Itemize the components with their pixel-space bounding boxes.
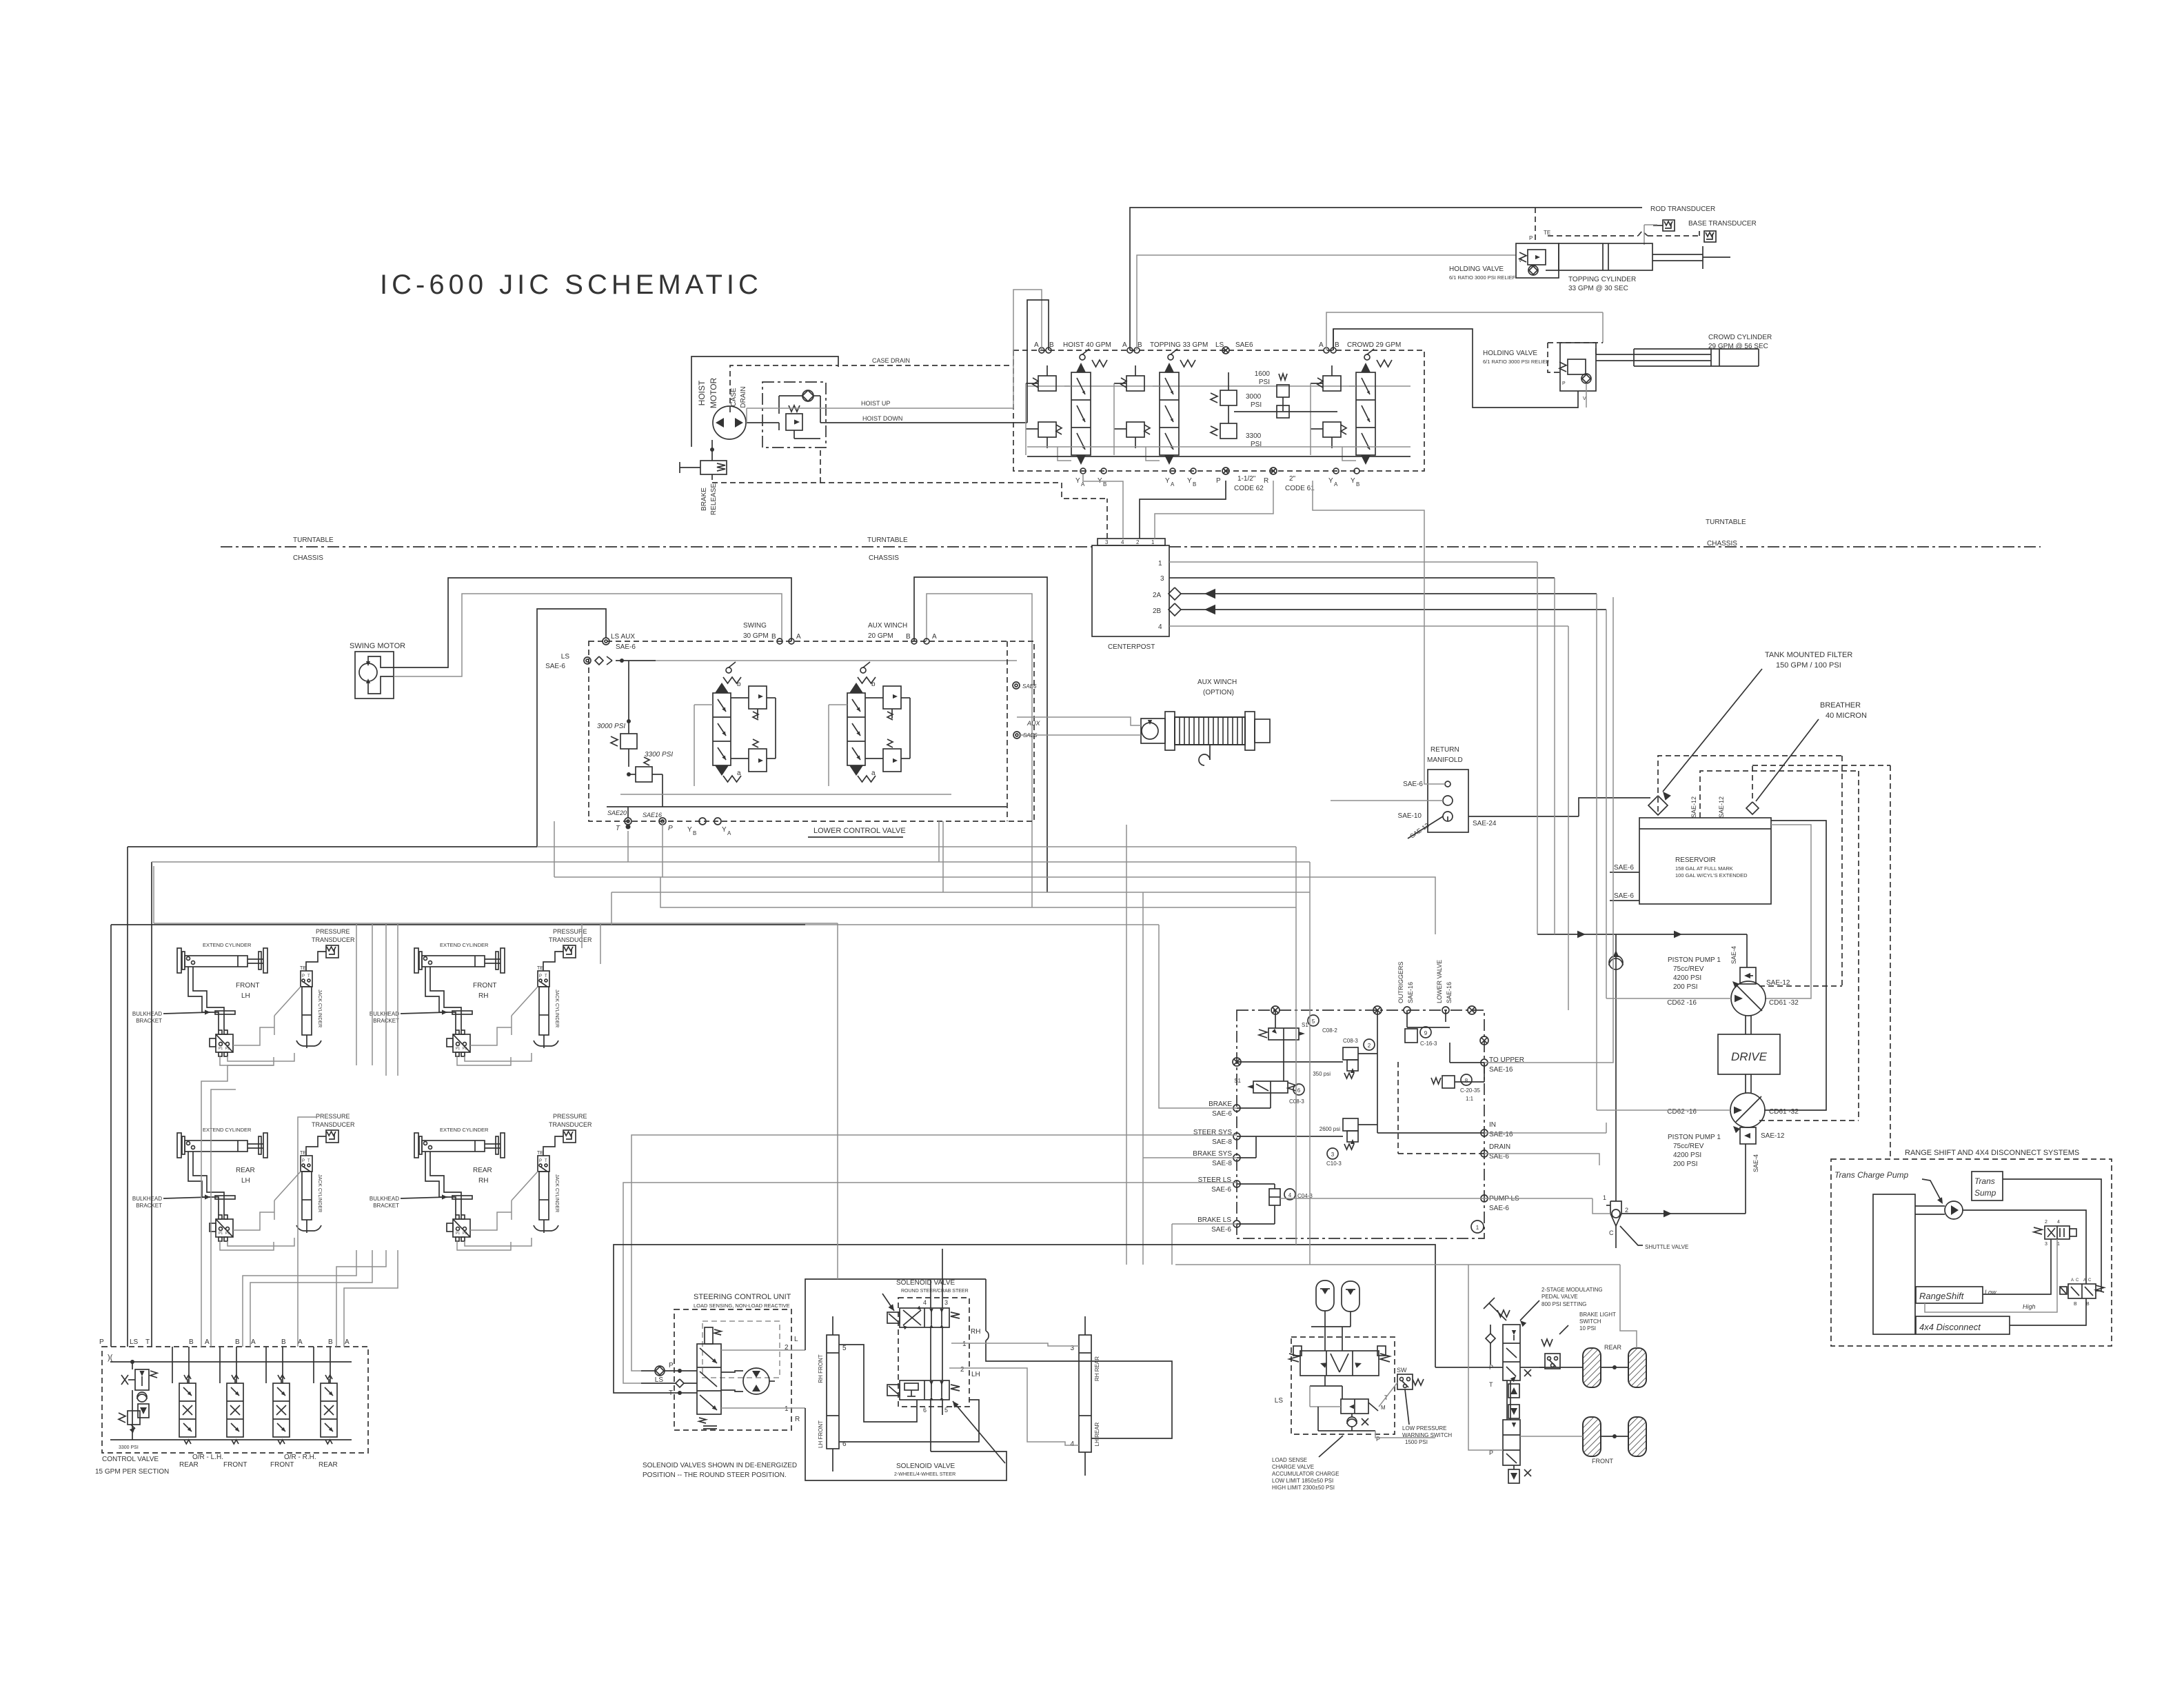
svg-text:P: P — [1376, 1436, 1380, 1443]
svg-text:LS: LS — [1275, 1397, 1284, 1405]
svg-text:CASE DRAIN: CASE DRAIN — [872, 357, 910, 364]
front RH jack cylinder — [539, 987, 549, 1035]
wire crowd to holding valve 2 — [1602, 312, 1604, 343]
crowd section feed lines — [1349, 385, 1356, 387]
svg-text:5: 5 — [944, 1407, 948, 1414]
front LH jack diagonal wire — [274, 987, 301, 1016]
svg-text:SOLENOID VALVES SHOWN IN DE-EN: SOLENOID VALVES SHOWN IN DE-ENERGIZED — [643, 1462, 797, 1469]
pump2 SAE-4 rect — [1740, 1127, 1756, 1144]
rear LH jack diagonal wire — [274, 1172, 301, 1200]
svg-text:b: b — [737, 681, 741, 688]
svg-text:JACK CYLINDER: JACK CYLINDER — [554, 989, 559, 1027]
svg-text:4: 4 — [923, 1299, 927, 1306]
aux winch spool — [847, 693, 865, 765]
svg-text:15 GPM PER SECTION: 15 GPM PER SECTION — [95, 1468, 169, 1476]
svg-text:LH: LH — [241, 1177, 250, 1185]
dashed TE line to transducers — [1548, 235, 1638, 237]
hoist pilot valve upper — [1038, 376, 1056, 391]
svg-text:3300: 3300 — [1246, 432, 1262, 440]
lower valve T port — [625, 818, 631, 825]
svg-text:TRANSDUCER: TRANSDUCER — [549, 1121, 592, 1128]
brake harness top lines — [1213, 1245, 1435, 1367]
svg-text:HOIST 40 GPM: HOIST 40 GPM — [1063, 341, 1111, 349]
svg-text:SAE-6: SAE-6 — [1489, 1205, 1509, 1212]
svg-text:PSI: PSI — [1259, 379, 1270, 386]
svg-text:SW: SW — [1397, 1367, 1407, 1374]
swing relief lower — [749, 749, 767, 772]
topping pilot port circle — [1168, 354, 1173, 360]
svg-text:SAE6: SAE6 — [1235, 341, 1253, 349]
harness line 1294 — [611, 892, 1310, 893]
lower valve P drop — [662, 844, 663, 845]
svg-text:R: R — [1264, 477, 1268, 485]
front LH manifold out wires — [233, 1027, 274, 1045]
rear RH extend cylinder bracket right — [501, 1133, 505, 1158]
svg-text:O/R - R.H.: O/R - R.H. — [284, 1454, 316, 1461]
rear RH extend cylinder bracket left — [414, 1133, 418, 1158]
pedal valve lower — [1503, 1420, 1520, 1465]
svg-text:C-16-3: C-16-3 — [1420, 1041, 1437, 1047]
svg-text:AUX WINCH: AUX WINCH — [1197, 679, 1237, 686]
svg-text:CASE: CASE — [730, 388, 738, 407]
charge valve box — [1291, 1337, 1395, 1434]
topping pilot valve upper — [1126, 376, 1144, 391]
trans charge pump — [1945, 1201, 1963, 1219]
T port drop — [627, 831, 629, 862]
svg-text:200 PSI: 200 PSI — [1673, 983, 1698, 991]
svg-text:P1: P1 — [219, 1047, 223, 1051]
svg-text:EXTEND CYLINDER: EXTEND CYLINDER — [440, 942, 489, 948]
reservoir — [1639, 818, 1771, 904]
svg-text:SAE-16: SAE-16 — [1446, 982, 1453, 1003]
svg-text:CD62 -16: CD62 -16 — [1667, 1108, 1697, 1116]
svg-text:C08-3: C08-3 — [1343, 1038, 1358, 1044]
svg-text:1: 1 — [962, 1340, 967, 1348]
svg-text:REAR: REAR — [1604, 1344, 1622, 1351]
dashed pilot line P to holding valve — [1535, 208, 1536, 243]
svg-text:L: L — [794, 1336, 798, 1343]
swing relief upper — [749, 686, 767, 709]
front RH jack cylinder bucket — [534, 1041, 558, 1046]
svg-text:Y: Y — [687, 826, 692, 834]
svg-text:200 PSI: 200 PSI — [1673, 1160, 1698, 1168]
svg-text:HOIST: HOIST — [697, 380, 707, 405]
svg-text:TURNTABLE: TURNTABLE — [867, 536, 908, 544]
steer cyl6 wire — [839, 1400, 979, 1442]
wire holding valve 2 bottom loop — [1333, 329, 1578, 408]
svg-text:1: 1 — [1151, 539, 1155, 545]
svg-text:SAE-6: SAE-6 — [1212, 1110, 1232, 1118]
topping spool valve — [1160, 372, 1179, 455]
svg-text:AUX WINCH: AUX WINCH — [868, 622, 907, 630]
hoist motor case drain dashed box — [730, 365, 838, 412]
svg-text:C: C — [2088, 1278, 2092, 1283]
rear RH bulkhead bracket — [452, 1196, 472, 1199]
wire topping line top — [1130, 208, 1642, 350]
front LH bulkhead bracket — [215, 1011, 235, 1014]
scu steering motor — [743, 1368, 769, 1394]
hoist motor port lines — [747, 422, 779, 423]
LS AUX riser — [537, 609, 606, 847]
svg-text:CENTERPOST: CENTERPOST — [1108, 643, 1155, 651]
svg-text:150 GPM / 100 PSI: 150 GPM / 100 PSI — [1776, 661, 1841, 670]
svg-text:TRANSDUCER: TRANSDUCER — [312, 936, 355, 943]
wire aux winch A loop — [927, 594, 1032, 907]
to upper feed wire — [1612, 597, 1614, 825]
svg-text:P1: P1 — [456, 1047, 460, 1051]
svg-text:SAE-10: SAE-10 — [1398, 812, 1422, 820]
svg-text:Y: Y — [1075, 477, 1080, 485]
lower valve right SAE6 port — [1013, 682, 1020, 689]
svg-text:T: T — [545, 974, 547, 978]
svg-text:3: 3 — [1331, 1152, 1335, 1158]
aux winch relief upper — [883, 686, 901, 709]
centerpost body — [1092, 545, 1169, 636]
svg-text:FRONT: FRONT — [270, 1461, 294, 1469]
svg-text:BRACKET: BRACKET — [373, 1203, 399, 1209]
svg-text:BULKHEAD: BULKHEAD — [370, 1196, 399, 1202]
svg-text:BRAKE LS: BRAKE LS — [1197, 1216, 1231, 1224]
dashed drop right 3 — [1890, 765, 1891, 1158]
svg-text:RH: RH — [971, 1328, 980, 1336]
svg-text:PRESSURE: PRESSURE — [553, 1113, 587, 1120]
svg-text:SWING: SWING — [743, 622, 767, 630]
svg-text:4: 4 — [1121, 539, 1124, 545]
lower valve LS AUX port — [603, 638, 609, 645]
rear LH jack valve head — [301, 1156, 312, 1172]
svg-text:BULKHEAD: BULKHEAD — [132, 1011, 162, 1017]
svg-text:FRONT: FRONT — [223, 1461, 247, 1469]
holding valve 2 (crowd) — [1560, 343, 1596, 391]
BRAKE SYS feed vertical — [1142, 892, 1144, 1265]
svg-text:2A: 2A — [1153, 592, 1162, 599]
svg-text:800 PSI SETTING: 800 PSI SETTING — [1541, 1301, 1586, 1307]
svg-text:RANGE SHIFT AND 4X4 DISCONNECT: RANGE SHIFT AND 4X4 DISCONNECT SYSTEMS — [1905, 1149, 2079, 1157]
harness line 1316 — [660, 877, 1296, 907]
lower valve bottom drops — [938, 821, 940, 862]
svg-text:B: B — [328, 1338, 333, 1346]
svg-text:RH: RH — [478, 992, 488, 1000]
svg-text:A: A — [1171, 481, 1175, 488]
harness line 1228 right — [537, 846, 1296, 847]
trans sump box — [1972, 1172, 2003, 1200]
left harness vertical T — [151, 862, 152, 1347]
svg-text:CROWD CYLINDER: CROWD CYLINDER — [1708, 334, 1772, 341]
svg-text:REAR: REAR — [318, 1461, 338, 1469]
svg-text:5: 5 — [1312, 1018, 1315, 1025]
front LH jack cylinder — [302, 987, 312, 1035]
upper control valve bank outline — [1013, 350, 1424, 471]
front LH jack valve head — [301, 971, 312, 987]
svg-text:A: A — [251, 1338, 256, 1346]
upper bank case drain drop — [1313, 481, 1445, 784]
svg-text:PISTON PUMP 1: PISTON PUMP 1 — [1668, 1134, 1721, 1141]
svg-text:2: 2 — [1136, 539, 1140, 545]
manifold corner xports — [1271, 1006, 1280, 1014]
centerpost top lines — [1106, 499, 1108, 539]
4x4 disconnect box — [1916, 1316, 2010, 1334]
svg-text:TRANSDUCER: TRANSDUCER — [549, 936, 592, 943]
svg-text:BRAKE: BRAKE — [700, 488, 708, 511]
svg-text:BRACKET: BRACKET — [136, 1203, 162, 1209]
front RH extend cylinder rod — [485, 958, 501, 960]
svg-text:P: P — [669, 1362, 674, 1369]
relief valve RV1 — [786, 414, 802, 430]
svg-text:BULKHEAD: BULKHEAD — [370, 1011, 399, 1017]
svg-text:FRONT: FRONT — [236, 982, 259, 989]
svg-text:DRAIN: DRAIN — [1489, 1143, 1510, 1151]
svg-text:S1: S1 — [1234, 1078, 1241, 1084]
svg-text:BRAKE LIGHT: BRAKE LIGHT — [1579, 1312, 1616, 1318]
svg-text:SAE-6: SAE-6 — [545, 663, 565, 670]
manifold to shuttle wires — [1484, 1198, 1593, 1199]
lower valve P port — [659, 818, 666, 825]
svg-text:HIGH LIMIT 2300±50 PSI: HIGH LIMIT 2300±50 PSI — [1272, 1485, 1335, 1491]
swing motor M2 — [359, 663, 377, 681]
svg-text:CHARGE VALVE: CHARGE VALVE — [1272, 1464, 1314, 1470]
bank bottom ports — [1080, 468, 1086, 474]
breather — [1746, 802, 1759, 814]
front RH jack diagonal wire — [512, 987, 538, 1016]
outrigger top bus — [154, 923, 838, 924]
svg-text:LH REAR: LH REAR — [1094, 1422, 1100, 1446]
aux winch drum — [1165, 712, 1175, 750]
rear RH jack diagonal wire — [512, 1172, 538, 1200]
svg-text:A: A — [1122, 341, 1127, 349]
svg-text:2: 2 — [960, 1366, 964, 1374]
lower valve YA port — [714, 818, 721, 825]
svg-text:8: 8 — [1465, 1078, 1468, 1084]
pump1 P1 — [1731, 981, 1766, 1016]
svg-text:6: 6 — [1297, 1087, 1301, 1094]
right harness verticals — [1295, 847, 1297, 1245]
svg-text:SAE-6: SAE-6 — [1614, 892, 1634, 900]
front RH manifold block — [453, 1034, 470, 1052]
hoist motor enclosure — [691, 356, 838, 447]
pump2 left supply — [1597, 1109, 1730, 1111]
svg-text:a: a — [871, 770, 876, 777]
control valve bus lines — [110, 1361, 352, 1363]
svg-text:3: 3 — [944, 1299, 948, 1306]
solenoid valve B port lines — [930, 1400, 931, 1451]
steering solenoid dashed box — [898, 1298, 969, 1407]
svg-text:P1: P1 — [219, 1232, 223, 1236]
svg-text:100 GAL W/CYL'S EXTENDED: 100 GAL W/CYL'S EXTENDED — [1675, 872, 1748, 878]
cv4 section A/B wires — [313, 1347, 314, 1383]
svg-text:3: 3 — [1105, 539, 1109, 545]
svg-text:T: T — [545, 1159, 547, 1163]
range shift 4x4 dashed box — [1831, 1159, 2112, 1346]
drive shaft upper — [1745, 1016, 1746, 1034]
svg-text:B: B — [693, 830, 696, 836]
svg-text:SAE-12: SAE-12 — [1690, 796, 1697, 818]
accumulator 2 — [1342, 1281, 1359, 1312]
svg-text:C08-3: C08-3 — [1289, 1098, 1304, 1105]
svg-text:BRAKE SYS: BRAKE SYS — [1193, 1150, 1232, 1158]
svg-text:RH: RH — [478, 1177, 488, 1185]
svg-text:B: B — [906, 633, 911, 641]
svg-text:T: T — [145, 1338, 150, 1346]
svg-text:3300 PSI: 3300 PSI — [119, 1445, 139, 1450]
front RH jack valve head — [538, 971, 549, 987]
svg-text:RESERVOIR: RESERVOIR — [1675, 856, 1716, 864]
reservoir dashed vents — [1658, 756, 1842, 793]
svg-text:SAE-6: SAE-6 — [616, 643, 636, 651]
rear RH pressure transducer — [563, 1130, 576, 1143]
left harness horizontal LS — [128, 846, 537, 847]
svg-text:SAE-4: SAE-4 — [1752, 1154, 1759, 1172]
svg-text:LOWER CONTROL VALVE: LOWER CONTROL VALVE — [813, 827, 906, 835]
svg-text:A: A — [298, 1338, 303, 1346]
cv1 section spool — [179, 1383, 196, 1437]
svg-text:SWING MOTOR: SWING MOTOR — [350, 642, 405, 650]
svg-text:EXTEND CYLINDER: EXTEND CYLINDER — [203, 942, 252, 948]
front RH transducer wire — [543, 952, 563, 971]
scu bottom spring — [699, 1418, 706, 1423]
rear LH pressure transducer — [326, 1130, 338, 1143]
drive shaft lower — [1745, 1074, 1746, 1094]
svg-text:BREATHER: BREATHER — [1820, 701, 1861, 710]
cv2 section A/B wires — [219, 1347, 221, 1383]
svg-text:350 psi: 350 psi — [1313, 1071, 1331, 1077]
svg-text:REAR: REAR — [473, 1167, 492, 1174]
filter to reservoir line — [1657, 817, 1659, 818]
svg-text:LOAD SENSING, NON-LOAD REACTIV: LOAD SENSING, NON-LOAD REACTIVE — [694, 1303, 790, 1309]
counterbalance valve dash-dot box — [762, 382, 826, 448]
rear RH extend cylinder rod — [485, 1143, 501, 1145]
svg-text:LS: LS — [130, 1338, 139, 1346]
charge check — [1347, 1417, 1357, 1427]
svg-text:JACK CYLINDER: JACK CYLINDER — [554, 1174, 559, 1212]
svg-text:A: A — [205, 1338, 210, 1346]
svg-text:SAE-16: SAE-16 — [1489, 1131, 1513, 1138]
svg-text:75cc/REV: 75cc/REV — [1673, 965, 1704, 973]
svg-text:SAE-6: SAE-6 — [1403, 781, 1423, 788]
svg-text:P: P — [1529, 235, 1533, 241]
crowd spool valve — [1356, 372, 1375, 455]
control valve dashed box — [102, 1347, 368, 1453]
rear LH cylinder port wires — [188, 1152, 219, 1215]
cv3 section A/B wires — [265, 1347, 267, 1383]
shuttle valve — [1610, 1201, 1621, 1226]
svg-text:PRESSURE: PRESSURE — [316, 928, 350, 935]
svg-text:S1: S1 — [1302, 1022, 1308, 1028]
svg-text:MOTOR: MOTOR — [709, 377, 718, 408]
svg-text:P1: P1 — [456, 1232, 460, 1236]
charge valve internal wires — [1324, 1376, 1326, 1386]
svg-text:REAR: REAR — [179, 1461, 199, 1469]
gray sense line — [1644, 225, 1645, 245]
svg-text:SAE6: SAE6 — [1022, 683, 1037, 690]
outrigger harness verticals — [201, 1065, 274, 1347]
pump1 SAE-12 dashed — [1759, 985, 1842, 987]
wire crowd B down — [1586, 383, 1587, 408]
rear LH jack cylinder — [302, 1172, 312, 1220]
cv1 section A/B wires — [172, 1347, 173, 1383]
lower control valve box — [589, 641, 1034, 821]
svg-text:SAE16: SAE16 — [643, 812, 662, 818]
svg-text:A: A — [1034, 341, 1039, 349]
svg-text:10 PSI: 10 PSI — [1579, 1325, 1596, 1332]
svg-text:RELEASE: RELEASE — [710, 483, 718, 515]
svg-text:B: B — [771, 633, 776, 641]
svg-text:LOW LIMIT 1850±50 PSI: LOW LIMIT 1850±50 PSI — [1272, 1478, 1333, 1484]
solenoid valve A port lines — [930, 1280, 931, 1308]
filter callout arrow — [1663, 669, 1762, 792]
drain wire right — [1484, 1154, 1599, 1165]
valve2 relief C08-3 — [1343, 1047, 1358, 1060]
svg-text:158 GAL AT FULL MARK: 158 GAL AT FULL MARK — [1675, 865, 1733, 872]
suction bus arrows — [1537, 934, 1747, 935]
svg-text:DRIVE: DRIVE — [1731, 1050, 1768, 1063]
svg-text:ROD TRANSDUCER: ROD TRANSDUCER — [1650, 205, 1715, 213]
svg-text:4: 4 — [2057, 1220, 2060, 1225]
svg-text:P: P — [302, 1159, 305, 1163]
svg-text:LS AUX: LS AUX — [611, 633, 635, 641]
lower valve LS port — [584, 657, 591, 664]
rear RH transducer wire — [543, 1136, 563, 1156]
front axle — [1601, 1436, 1628, 1437]
svg-text:P: P — [99, 1338, 104, 1346]
hoist motor M1 — [713, 406, 746, 439]
svg-text:)(: )( — [108, 1354, 113, 1362]
mid relief 3000 PSI — [1220, 390, 1237, 405]
svg-text:4200 PSI: 4200 PSI — [1673, 974, 1701, 982]
outrigger vertical bundle — [356, 923, 357, 1065]
DRIVE box — [1718, 1034, 1780, 1074]
pedal interlink — [1506, 1380, 1508, 1420]
svg-text:4200 PSI: 4200 PSI — [1673, 1152, 1701, 1159]
svg-text:6/1 RATIO 3000 PSI RELIEF: 6/1 RATIO 3000 PSI RELIEF — [1449, 274, 1516, 281]
svg-text:A: A — [1081, 481, 1085, 488]
TO UPPER wire right — [1484, 825, 1613, 1063]
rear LH jack cylinder bucket — [296, 1225, 321, 1231]
pedal check lower — [1508, 1405, 1519, 1418]
brake release valve — [711, 440, 713, 461]
svg-text:SAE-6: SAE-6 — [1211, 1186, 1231, 1194]
topping cylinder rod line — [1703, 257, 1730, 258]
svg-text:CROWD 29 GPM: CROWD 29 GPM — [1347, 341, 1401, 349]
svg-text:3300 PSI: 3300 PSI — [645, 751, 673, 758]
steer cyl5 wire — [839, 1345, 917, 1422]
svg-text:MANIFOLD: MANIFOLD — [1427, 756, 1463, 764]
svg-text:4: 4 — [1288, 1192, 1292, 1198]
svg-text:SAE-8: SAE-8 — [1212, 1138, 1232, 1146]
svg-text:9: 9 — [1424, 1030, 1428, 1036]
svg-text:P: P — [302, 974, 305, 978]
svg-text:LH: LH — [971, 1371, 980, 1378]
front RH top feeds — [581, 923, 583, 948]
svg-text:Trans: Trans — [1974, 1176, 1995, 1186]
svg-text:SAE20: SAE20 — [607, 810, 627, 816]
front RH manifold out wires — [470, 1027, 512, 1045]
svg-text:HOIST UP: HOIST UP — [861, 400, 890, 407]
front tire right — [1628, 1417, 1646, 1456]
steering to harness wires — [631, 1135, 1237, 1371]
svg-text:CD61 -32: CD61 -32 — [1769, 1108, 1799, 1116]
lower valve bottom bus — [607, 806, 1007, 807]
svg-text:P2: P2 — [225, 1047, 230, 1051]
pump2 P2 — [1730, 1093, 1765, 1127]
svg-text:2: 2 — [1625, 1207, 1628, 1214]
svg-text:FRONT: FRONT — [473, 982, 496, 989]
pedal check upper — [1508, 1384, 1519, 1398]
svg-text:CODE 61: CODE 61 — [1285, 485, 1315, 492]
svg-text:RETURN: RETURN — [1430, 746, 1459, 754]
svg-text:C10-3: C10-3 — [1326, 1160, 1342, 1167]
4x4 solenoid valve — [2068, 1284, 2096, 1298]
holding valve 2 dashed pilot — [1548, 343, 1560, 372]
